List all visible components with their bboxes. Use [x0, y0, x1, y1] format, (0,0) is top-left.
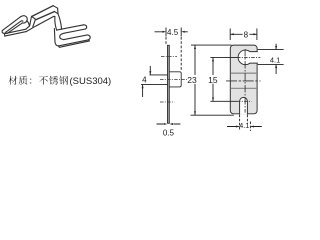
dim 8 line: [231, 33, 257, 35]
left fork inner slot edge: [6, 21, 23, 33]
left fork plate right bend edge: [27, 21, 30, 26]
right fork thickness edge: [58, 40, 89, 48]
right fork left edge: [53, 29, 56, 43]
dim 0.5 lines: [157, 123, 181, 125]
front view plate: [230, 45, 257, 114]
svg-text:4.1: 4.1: [239, 121, 249, 130]
side view main strip: [168, 45, 170, 123]
bridge right end face: [54, 8, 58, 14]
dim 4 lower ext line: [141, 83, 168, 85]
dim 4.1 bottom ext lines: [240, 115, 251, 131]
dim 4 lower arrow line: [142, 85, 144, 97]
arrowheads front view: [212, 33, 277, 127]
glyph ：: [30, 79, 31, 84]
glyph 钢: [59, 76, 68, 85]
dim 23 bottom ext line to front view: [191, 114, 234, 116]
dim 23 top ext line to front view: [191, 44, 231, 46]
right fork lower prong bottom edge: [58, 40, 88, 46]
top keyhole slot: [238, 50, 258, 65]
descending web right edge: [58, 14, 62, 29]
centerline vertical: [244, 49, 246, 113]
bridge right end top edge: [53, 6, 57, 9]
svg-text:4.5: 4.5: [167, 28, 179, 37]
left fork slot closed-end hook: [21, 16, 27, 23]
left fork slot front edge: [7, 23, 22, 33]
left fork lip top edge: [4, 29, 26, 34]
right fork upper prong tip arc: [84, 25, 87, 29]
glyph 材: [9, 76, 18, 85]
bend line lower: [231, 87, 257, 89]
centerline horizontal bottom hole: [210, 100, 237, 102]
centerline horizontal mid: [226, 80, 261, 82]
dim 4.5 ext dashed: [165, 37, 167, 44]
centerline bottom slot: [160, 101, 175, 103]
descending web left edge: [55, 17, 57, 31]
dim 4.5 lines: [155, 31, 188, 33]
right fork front corner: [55, 42, 58, 46]
dim 4.1 top ext lines: [258, 50, 284, 65]
left fork lip bottom edge: [5, 32, 26, 36]
centerline top slot: [161, 56, 177, 58]
svg-text:8: 8: [244, 31, 249, 40]
left fork back prong outer edge: [2, 17, 20, 31]
dim 4 line: [149, 66, 151, 75]
svg-text:0.5: 0.5: [163, 128, 175, 137]
rising web right edge: [33, 20, 36, 27]
centerline foot: [160, 79, 187, 81]
right fork slot closed end arc: [60, 33, 65, 40]
glyph 质: [19, 76, 28, 85]
svg-text:4.1: 4.1: [270, 55, 280, 64]
dim 15 line: [212, 58, 214, 102]
bottom U slot: [240, 97, 248, 114]
dim 4.1 top vline: [275, 44, 277, 74]
left fork lip left end: [3, 34, 5, 36]
svg-text:(SUS304): (SUS304): [70, 76, 112, 87]
right fork lower prong top edge: [64, 35, 88, 40]
rising web left edge: [30, 17, 32, 26]
svg-text:23: 23: [187, 75, 197, 85]
rising web upper band edge: [26, 26, 29, 29]
dim 23 line: [194, 45, 196, 115]
bridge front face bottom edge: [36, 16, 55, 25]
isometric bracket drawing: [2, 6, 90, 48]
svg-text:4: 4: [142, 76, 147, 85]
arrowheads side view: [142, 31, 196, 125]
glyph 不: [39, 76, 48, 85]
side view middle foot tab: [169, 72, 181, 87]
svg-text:15: 15: [208, 75, 218, 85]
dim 4 ext line: [150, 74, 168, 76]
bridge left end edge: [32, 16, 36, 19]
dim 4.5 ticks: [166, 28, 181, 37]
glyph 锈: [49, 76, 58, 85]
right fork upper prong bottom edge: [65, 29, 86, 33]
dim 4.1 bottom line: [227, 126, 262, 128]
bridge top back edge: [32, 6, 54, 17]
rising web lower band edge: [26, 26, 36, 32]
right fork back edge: [57, 25, 84, 30]
dim 8 ticks: [230, 29, 257, 41]
centerline horizontal top hole (solid left part to 15-dim): [210, 56, 237, 58]
bend line upper: [231, 72, 257, 74]
left fork back prong tip arc: [2, 30, 7, 33]
right fork lower prong tip arc: [87, 35, 90, 40]
material text: 材质：不锈钢 (CJK vector glyphs): [9, 76, 69, 85]
bridge top front edge: [36, 12, 54, 20]
